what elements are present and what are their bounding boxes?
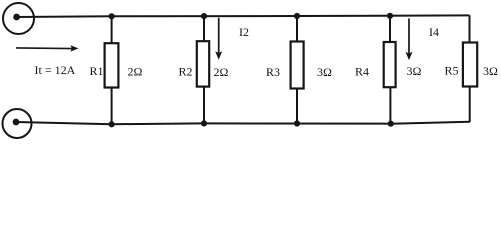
svg-text:R2: R2 <box>179 65 193 79</box>
svg-text:I4: I4 <box>429 25 439 39</box>
terminal dot bottom <box>13 119 20 126</box>
resistor R4 <box>384 42 396 87</box>
svg-text:3Ω: 3Ω <box>407 64 422 78</box>
svg-text:2Ω: 2Ω <box>128 65 143 79</box>
svg-text:3Ω: 3Ω <box>483 64 498 78</box>
resistor R5 <box>463 43 477 87</box>
svg-text:It = 12A: It = 12A <box>35 63 76 77</box>
wire R3 top lead <box>296 16 298 42</box>
junction node R3 top <box>294 13 300 19</box>
arrowhead It <box>71 45 79 51</box>
svg-text:2Ω: 2Ω <box>214 65 229 79</box>
junction node R2 bottom <box>201 120 207 126</box>
junction node R2 top <box>201 13 207 19</box>
svg-text:R1: R1 <box>90 64 104 78</box>
wire R1 bottom lead <box>111 88 113 125</box>
arrow I4 shaft <box>408 18 410 53</box>
wire R2 top lead <box>203 16 205 41</box>
wire right vertical from R5 bottom <box>469 87 471 123</box>
junction node R3 bottom <box>294 120 300 126</box>
junction node R1 top <box>109 13 115 19</box>
svg-text:R5: R5 <box>445 64 459 78</box>
resistor R1 <box>105 43 119 87</box>
source terminal bottom circle <box>3 109 32 138</box>
resistor R3 <box>291 42 304 89</box>
resistor R2 <box>197 41 209 86</box>
svg-text:I2: I2 <box>239 25 249 39</box>
terminal dot top <box>13 14 20 21</box>
wire R4 top lead <box>389 16 391 42</box>
wire top horizontal <box>17 15 470 17</box>
arrow I2 shaft <box>218 18 220 53</box>
wire right vertical drop to R5 <box>469 15 471 42</box>
wire R1 top lead <box>111 16 113 43</box>
junction node R4 top <box>387 13 393 19</box>
wire R4 bottom lead <box>389 87 391 124</box>
svg-text:R4: R4 <box>355 65 369 79</box>
arrow It shaft <box>16 47 73 50</box>
source terminal top circle <box>3 3 34 34</box>
junction node R1 bottom <box>109 121 115 127</box>
wire bottom horizontal <box>16 122 470 124</box>
wire R3 bottom lead <box>296 89 298 124</box>
arrowhead I2 <box>215 51 222 60</box>
svg-text:R3: R3 <box>266 65 280 79</box>
svg-text:3Ω: 3Ω <box>317 65 332 79</box>
wire R2 bottom lead <box>203 87 205 124</box>
arrowhead I4 <box>406 52 413 61</box>
junction node R4 bottom <box>388 121 394 127</box>
